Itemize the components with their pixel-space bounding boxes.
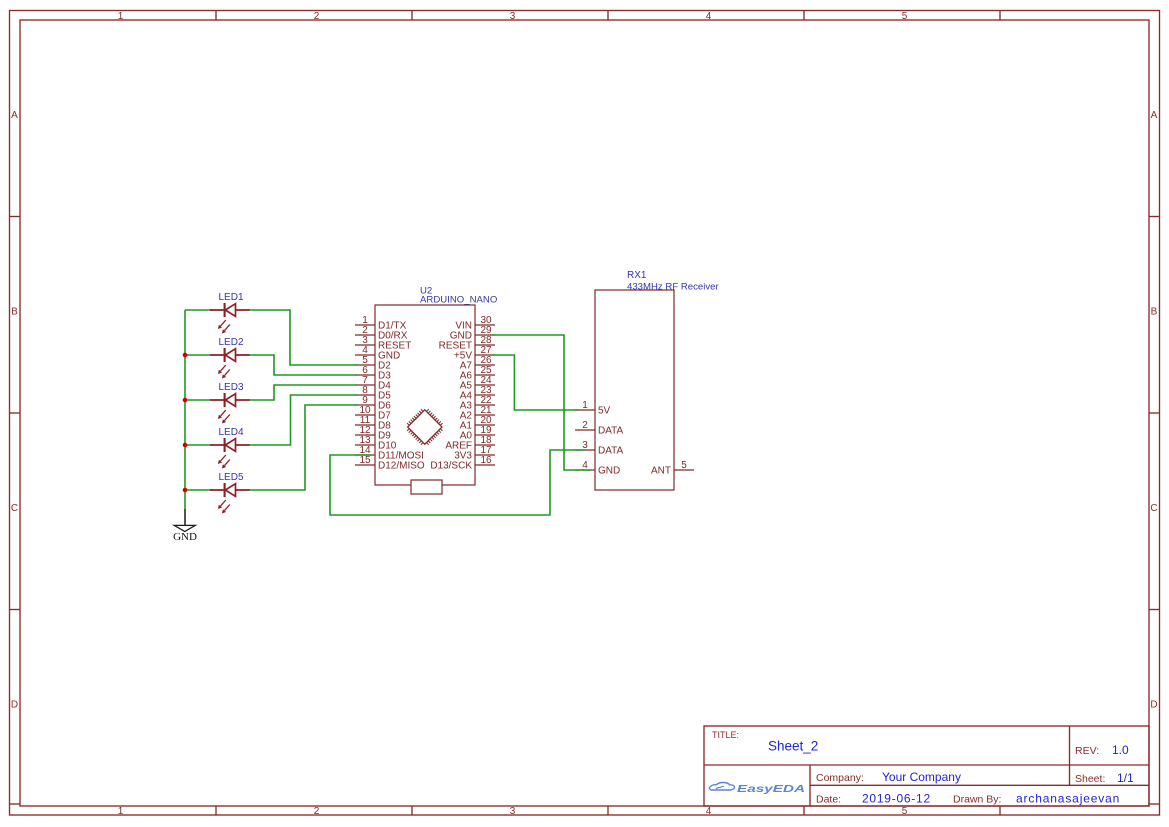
U2 pin 29 GND — [450, 325, 495, 341]
svg-text:A: A — [1151, 110, 1158, 121]
svg-text:ANT: ANT — [651, 466, 671, 477]
svg-text:4: 4 — [706, 806, 712, 817]
IC U2 ARDUINO_NANO body — [375, 305, 475, 494]
RX1 pin 3 DATA — [575, 440, 624, 456]
RX1 pin 1 5V — [575, 400, 611, 416]
svg-text:3: 3 — [510, 806, 516, 817]
RX1 pin 4 GND — [575, 460, 620, 476]
svg-text:B: B — [11, 307, 18, 318]
svg-text:GND: GND — [598, 466, 620, 477]
svg-text:RX1: RX1 — [627, 270, 647, 281]
U2 pin 1 D1/TX — [355, 315, 407, 331]
svg-text:TITLE:: TITLE: — [712, 730, 739, 740]
U2 pin 15 D12/MISO — [355, 455, 425, 471]
U2 pin 12 D9 — [355, 425, 391, 441]
U2 pin 8 D5 — [355, 385, 391, 401]
svg-text:D13/SCK: D13/SCK — [430, 461, 472, 472]
wire LED4 cathode to U2 pin 8 D5 — [250, 395, 356, 445]
wire LED anode bus vertical — [184, 310, 186, 509]
svg-text:C: C — [11, 503, 18, 514]
svg-text:1.0: 1.0 — [1112, 743, 1129, 757]
U2 pin 24 A5 — [460, 375, 495, 391]
svg-text:EasyEDA: EasyEDA — [737, 784, 805, 795]
U2 pin 13 D10 — [355, 435, 397, 451]
wire bus stub to LED at y=310 — [185, 309, 211, 311]
svg-text:ARDUINO_NANO: ARDUINO_NANO — [420, 295, 497, 306]
U2 pin 14 D11/MOSI — [355, 445, 424, 461]
U2 pin 6 D3 — [355, 365, 391, 381]
U2 pin 21 A2 — [460, 405, 495, 421]
wire LED1 cathode to U2 pin 5 D2 — [250, 310, 356, 365]
svg-text:LED5: LED5 — [218, 472, 243, 483]
U2 pin 2 D0/RX — [355, 325, 408, 341]
svg-text:2: 2 — [314, 11, 320, 22]
LED LED4 — [210, 427, 250, 469]
wire LED5 cathode to U2 pin 9 D6 — [250, 405, 356, 490]
LED LED5 — [210, 472, 250, 514]
svg-text:433MHz RF Receiver: 433MHz RF Receiver — [627, 282, 720, 293]
junction bus at y=445 — [183, 443, 188, 448]
svg-text:5: 5 — [681, 460, 687, 471]
wire U2 pin 14 D11/MOSI to RX1 pin 3 DATA — [330, 450, 585, 515]
RF module RX1 body — [595, 290, 674, 490]
wire bus stub to LED at y=445 — [185, 444, 211, 446]
svg-text:archanasajeevan: archanasajeevan — [1016, 792, 1120, 806]
svg-text:2: 2 — [582, 420, 588, 431]
svg-text:1/1: 1/1 — [1117, 771, 1134, 785]
U2 pin 3 RESET — [355, 335, 411, 351]
U2 pin 26 A7 — [460, 355, 495, 371]
svg-text:DATA: DATA — [598, 426, 624, 437]
svg-text:LED1: LED1 — [218, 292, 243, 303]
U2 pin 20 A1 — [460, 415, 495, 431]
svg-text:16: 16 — [480, 455, 492, 466]
U2 pin 4 GND — [355, 345, 400, 361]
U2 pin 18 AREF — [445, 435, 495, 451]
svg-text:Company:: Company: — [816, 772, 864, 784]
svg-text:B: B — [1151, 307, 1158, 318]
junction bus at y=355 — [183, 353, 188, 358]
wire bus stub to LED at y=400 — [185, 399, 211, 401]
U2 pin 9 D6 — [355, 395, 391, 411]
U2 pin 10 D7 — [355, 405, 391, 421]
svg-text:Your Company: Your Company — [882, 770, 961, 784]
wire LED2 cathode to U2 pin 6 D3 — [250, 355, 356, 375]
svg-text:1: 1 — [582, 400, 588, 411]
svg-text:D12/MISO: D12/MISO — [378, 461, 425, 472]
svg-text:2: 2 — [314, 806, 320, 817]
svg-text:A: A — [11, 110, 18, 121]
wire bus stub to LED at y=490 — [185, 489, 211, 491]
svg-text:Sheet_2: Sheet_2 — [768, 739, 818, 754]
RX1 pin 5 ANT — [651, 460, 694, 476]
svg-text:1: 1 — [118, 11, 124, 22]
svg-text:2019-06-12: 2019-06-12 — [862, 792, 931, 806]
junction bus at y=490 — [183, 488, 188, 493]
U2 pin 22 A3 — [460, 395, 495, 411]
junction bus at y=400 — [183, 398, 188, 403]
LED LED2 — [210, 337, 250, 379]
svg-text:REV:: REV: — [1075, 745, 1099, 757]
svg-text:DATA: DATA — [598, 446, 624, 457]
svg-text:5: 5 — [902, 806, 908, 817]
svg-text:C: C — [1150, 503, 1157, 514]
U2 pin 17 3V3 — [454, 445, 495, 461]
svg-text:Sheet:: Sheet: — [1075, 773, 1105, 785]
U2 pin 19 A0 — [460, 425, 495, 441]
wire LED3 cathode to U2 pin 7 D4 — [250, 385, 356, 400]
U2 pin 5 D2 — [355, 355, 391, 371]
svg-text:LED3: LED3 — [218, 382, 243, 393]
svg-text:LED2: LED2 — [218, 337, 243, 348]
RX1 pin 2 DATA — [575, 420, 624, 436]
svg-text:1: 1 — [118, 806, 124, 817]
wire U2 pin 29 GND to RX1 pin 4 GND — [492, 335, 589, 470]
svg-text:Date:: Date: — [816, 794, 841, 806]
svg-text:LED4: LED4 — [218, 427, 243, 438]
svg-text:D: D — [11, 700, 18, 711]
wire U2 pin 27 +5V to RX1 pin 1 5V — [492, 355, 577, 410]
U2 pin 7 D4 — [355, 375, 391, 391]
U2 pin 11 D8 — [355, 415, 391, 431]
LED LED3 — [210, 382, 250, 424]
ground GND — [173, 509, 197, 543]
svg-text:3: 3 — [510, 11, 516, 22]
svg-text:4: 4 — [706, 11, 712, 22]
svg-text:5: 5 — [902, 11, 908, 22]
U2 pin 27 +5V — [454, 345, 495, 361]
U2 pin 28 RESET — [439, 335, 495, 351]
svg-text:GND: GND — [173, 531, 197, 543]
svg-text:5V: 5V — [598, 406, 611, 417]
svg-text:15: 15 — [359, 455, 371, 466]
svg-text:D: D — [1150, 700, 1157, 711]
U2 pin 23 A4 — [460, 385, 495, 401]
wire bus stub to LED at y=355 — [185, 354, 211, 356]
LED LED1 — [210, 292, 250, 334]
U2 pin 30 VIN — [455, 315, 495, 331]
U2 pin 16 D13/SCK — [430, 455, 495, 471]
svg-text:Drawn By:: Drawn By: — [953, 794, 1001, 806]
U2 pin 25 A6 — [460, 365, 495, 381]
